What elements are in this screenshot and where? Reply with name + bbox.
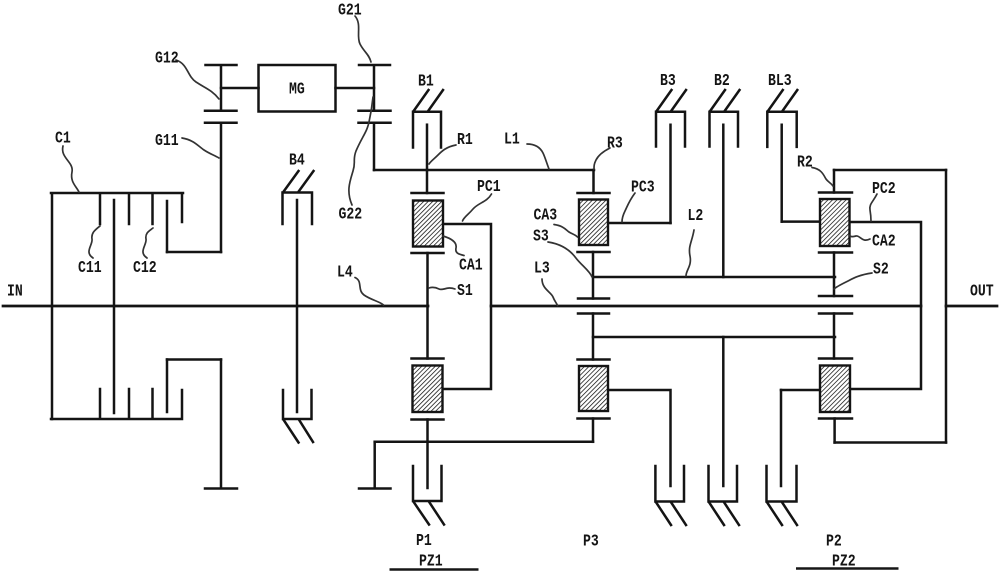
bracket P1 diagonals: [414, 503, 444, 525]
wire B1 stem: [426, 125, 429, 170]
gear G11: [205, 123, 237, 252]
brake B4 lower diagonals: [284, 421, 313, 443]
wire BL3 stem: [780, 125, 783, 222]
svg-text:L1: L1: [504, 130, 520, 149]
wire P2 bottom stem: [833, 419, 836, 443]
brake B1 bracket: [413, 112, 441, 148]
leader G22: [349, 97, 373, 205]
svg-text:R2: R2: [797, 153, 813, 172]
brake B4 upper bracket: [283, 193, 313, 225]
leader S2: [834, 273, 872, 289]
svg-text:B1: B1: [418, 72, 434, 91]
node S3 mesh bar upper: [578, 297, 609, 300]
svg-text:G21: G21: [338, 1, 362, 20]
svg-text:S3: S3: [533, 226, 549, 245]
svg-text:IN: IN: [7, 282, 23, 301]
brake B2 diagonals: [711, 90, 740, 111]
wire P3 lower stem: [592, 314, 595, 360]
svg-text:CA1: CA1: [459, 256, 483, 275]
ring R2 bottom line: [835, 441, 946, 444]
clutch C1 inner lower plate: [166, 360, 169, 413]
bracket right diagonals: [768, 503, 798, 525]
svg-text:C11: C11: [78, 258, 102, 277]
node P2 upper lower cap: [819, 251, 852, 254]
gear G12: [205, 65, 237, 111]
wire lower link to ground shaft: [167, 358, 221, 361]
node S3 mesh bar lower: [578, 312, 609, 315]
ground left: [205, 487, 237, 490]
node S2 mesh bar lower: [819, 312, 852, 315]
motor-generator MG: [259, 65, 336, 112]
bracket P3 lower: [655, 466, 684, 502]
wire CA2 link from BL3: [782, 220, 820, 223]
leader CA1: [443, 236, 464, 256]
carrier PC3 lower link: [608, 390, 671, 486]
leader L2: [686, 230, 694, 276]
wire ground stem mid: [373, 442, 376, 488]
leader C12: [143, 228, 153, 258]
brake BL3 bracket: [767, 112, 796, 147]
node P2 upper cap: [819, 191, 852, 194]
leader G21: [355, 16, 371, 62]
svg-text:PC3: PC3: [631, 178, 655, 197]
carrier PC1: [443, 224, 491, 389]
node P1 upper cap: [412, 192, 444, 195]
clutch plate C12 inner upper: [166, 201, 169, 252]
svg-text:P1: P1: [416, 531, 432, 550]
underline PZ1: [390, 568, 479, 571]
sun S1 stem: [426, 253, 429, 359]
wire MG right link: [336, 87, 375, 90]
svg-text:C1: C1: [55, 129, 71, 148]
frame L2 bottom: [593, 336, 835, 339]
leader C1: [63, 146, 79, 192]
svg-text:P2: P2: [826, 532, 842, 551]
svg-text:PZ1: PZ1: [419, 552, 443, 571]
wire B2 lower stem: [722, 337, 725, 486]
pinion P3 upper: [579, 200, 608, 246]
carrier PC2: [850, 222, 922, 389]
node P3 lower bottom cap: [578, 417, 610, 420]
leader S1: [429, 287, 455, 289]
svg-text:P3: P3: [583, 532, 599, 551]
svg-text:MG: MG: [289, 80, 305, 99]
node P2 lower bottom cap: [819, 417, 852, 420]
svg-text:R1: R1: [457, 130, 473, 149]
bracket P3 diagonals: [657, 503, 687, 525]
leader PC1: [463, 194, 492, 221]
carrier PC3 link: [608, 222, 671, 225]
ring R3 stem: [592, 170, 595, 193]
pinion P1 lower: [413, 366, 443, 413]
leader C11: [89, 226, 100, 258]
ring R1 stem: [426, 170, 429, 193]
clutch plate C11 inner shaft: [113, 200, 116, 413]
node P3 upper lower cap: [578, 251, 610, 254]
svg-text:C12: C12: [133, 258, 157, 277]
wire MG left link: [221, 87, 259, 90]
wire R2 stem: [833, 170, 836, 193]
svg-text:CA2: CA2: [872, 232, 896, 251]
wire right bracket stem: [780, 390, 783, 486]
node S2 mesh bar upper: [819, 295, 852, 298]
bracket mid diagonals: [710, 503, 740, 525]
leader S3: [548, 242, 592, 277]
wire intermediate shaft axis: [491, 305, 921, 308]
node P3 upper cap: [578, 192, 610, 195]
pinion P2 upper: [820, 199, 850, 246]
sun S2 stem: [833, 253, 836, 297]
svg-text:S1: S1: [457, 281, 473, 300]
svg-text:G22: G22: [339, 205, 363, 224]
svg-text:R3: R3: [607, 134, 623, 153]
pinion P2 lower: [820, 366, 850, 413]
svg-text:PC1: PC1: [477, 177, 501, 196]
brake B1 diagonals: [414, 90, 443, 111]
svg-text:B2: B2: [714, 71, 730, 90]
wire output shaft OUT: [946, 305, 997, 308]
pinion P1 upper: [413, 201, 443, 247]
node P1 upper lower cap: [412, 252, 444, 255]
leader L1: [527, 144, 549, 169]
leader L3: [542, 279, 558, 306]
frame L2 top: [593, 276, 835, 279]
node P1 lower bottom cap: [412, 418, 444, 421]
leader G12: [176, 60, 219, 99]
leader R3: [594, 148, 610, 169]
node P1 lower top cap: [412, 357, 444, 360]
svg-text:G11: G11: [155, 131, 179, 150]
node P3 lower top cap: [578, 358, 610, 361]
wire P1 lower stem: [426, 420, 429, 489]
clutch C1 outer drum upper: [51, 193, 183, 419]
brake B3 diagonals: [657, 90, 686, 111]
gear G21: [359, 65, 391, 111]
wire C12 to G11 shaft: [167, 251, 221, 254]
wire B3 stem to PC3: [669, 125, 672, 223]
brake B2 bracket: [710, 112, 739, 147]
wire B4 stem: [296, 200, 299, 412]
brake BL3 diagonals: [768, 90, 797, 111]
leader CA2: [849, 235, 870, 240]
leader R2: [812, 168, 833, 187]
svg-text:L3: L3: [534, 258, 550, 277]
svg-text:S2: S2: [873, 260, 889, 279]
wire P3 bottom stem: [592, 419, 595, 442]
wire P2 lower carrier left link: [781, 389, 820, 392]
svg-text:B3: B3: [660, 71, 676, 90]
wire interconnect line lower: [375, 441, 593, 444]
svg-text:L4: L4: [337, 263, 353, 282]
gear G22: [359, 123, 391, 170]
svg-text:G12: G12: [155, 49, 179, 68]
clutch C1 outer drum lower: [51, 389, 182, 419]
sun S3 stem: [592, 252, 595, 299]
brake B4 lower bracket: [283, 390, 312, 419]
leader PC2: [870, 194, 877, 221]
wire ground stem left: [220, 360, 223, 489]
svg-text:BL3: BL3: [768, 71, 792, 90]
leader PC3: [622, 193, 635, 222]
bracket right lower: [767, 466, 797, 502]
leader R1: [429, 145, 456, 164]
svg-text:B4: B4: [289, 151, 305, 170]
wire B2 stem: [722, 125, 725, 277]
leader CA3: [554, 225, 578, 238]
underline PZ2: [796, 567, 899, 570]
wire P2 lower stem: [833, 314, 836, 359]
ground mid: [359, 487, 391, 490]
bracket mid lower: [709, 466, 738, 502]
brake B4 diagonals: [284, 171, 314, 191]
wire main input shaft IN axis: [3, 305, 428, 308]
ring R2 top line: [834, 169, 946, 172]
node P2 lower top cap: [819, 357, 852, 360]
wire L1 link line: [374, 169, 594, 172]
svg-text:PC2: PC2: [872, 179, 896, 198]
leader L4: [355, 278, 384, 306]
svg-text:L2: L2: [688, 206, 704, 225]
pinion P3 lower: [579, 366, 608, 411]
svg-text:OUT: OUT: [970, 282, 994, 301]
leader G11: [182, 138, 219, 158]
brake B3 bracket: [656, 112, 685, 147]
svg-text:CA3: CA3: [534, 206, 558, 225]
ring R2 right side: [945, 170, 948, 443]
bracket P1: [413, 466, 442, 501]
